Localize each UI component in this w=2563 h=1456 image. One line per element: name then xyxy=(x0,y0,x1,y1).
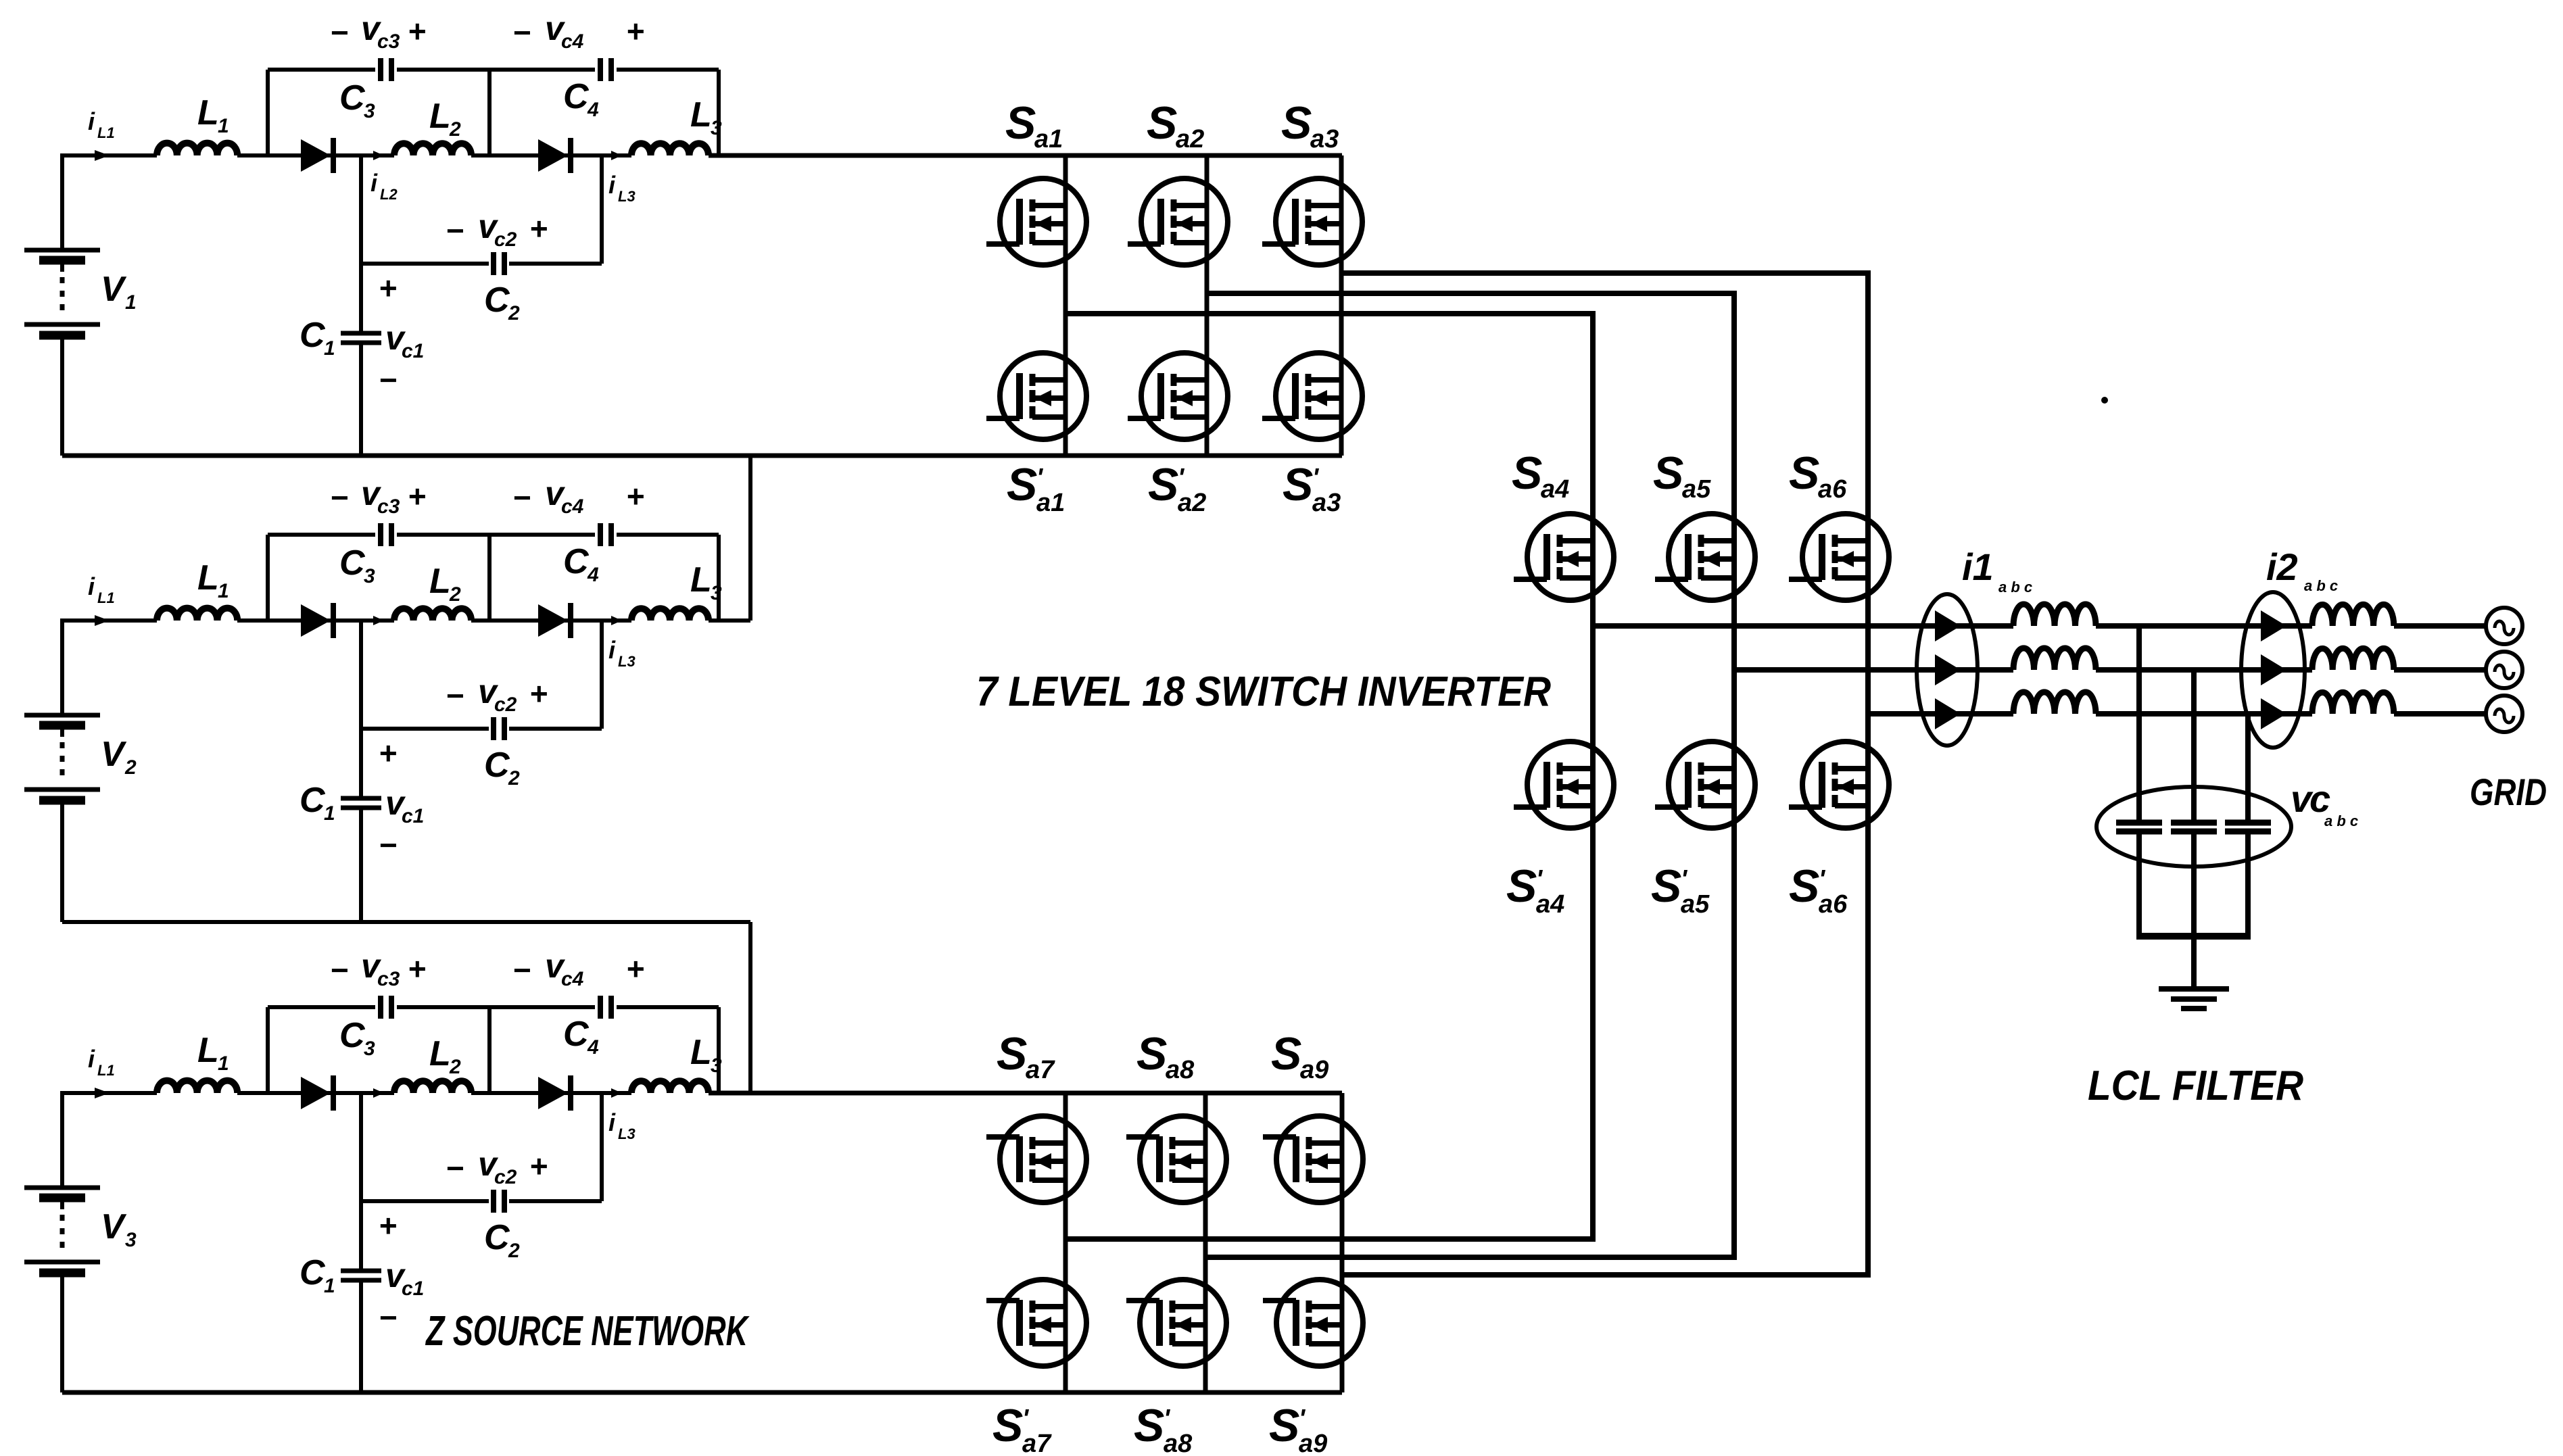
svg-text:+: + xyxy=(379,1208,397,1243)
svg-text:+: + xyxy=(408,951,426,986)
label Sa7 xyxy=(997,1028,1055,1084)
MOSFET S'a3 xyxy=(1262,353,1362,439)
label C2 network 2 xyxy=(484,746,520,790)
svg-text:L3: L3 xyxy=(618,653,636,670)
svg-text:C: C xyxy=(300,316,326,355)
stray dot xyxy=(2101,397,2108,404)
top bus wire network1 to inverter bridge1 xyxy=(709,153,1342,158)
bottom bus wire network1 / bridge1 xyxy=(62,454,1342,458)
polarity - v_c2 + network 3 xyxy=(446,1145,548,1188)
svg-text:−: − xyxy=(379,362,397,397)
filter capacitor Ca xyxy=(2116,823,2162,831)
label i_L1 network 1 xyxy=(88,107,115,141)
C1 branch vertical wire network 1 xyxy=(359,264,363,456)
label v_c1 network 2 xyxy=(385,784,424,827)
current sensor oval i1 xyxy=(1917,594,1978,746)
raised wire middle vertical network 1 xyxy=(487,70,492,155)
label C1 network 1 xyxy=(300,316,335,360)
svg-text:a3: a3 xyxy=(1312,489,1341,517)
phase line B wire to grid source xyxy=(2394,667,2487,673)
svg-text:7 LEVEL 18 SWITCH INVERTER: 7 LEVEL 18 SWITCH INVERTER xyxy=(976,669,1551,715)
svg-text:L: L xyxy=(690,1033,712,1072)
raised wire middle vertical network 3 xyxy=(487,1007,492,1093)
battery V2 of Z-source network 2 xyxy=(24,621,100,922)
svg-text:a b c: a b c xyxy=(2324,812,2358,829)
MOSFET S'a2 xyxy=(1128,353,1228,439)
svg-text:1: 1 xyxy=(125,291,137,314)
junction vertical below diode D1 network 1 xyxy=(359,155,363,264)
label C4 network 1 xyxy=(563,77,599,121)
top wire extension network 2 xyxy=(709,618,750,623)
phase line B inverter-side inductor xyxy=(2013,648,2096,670)
label Sa3 xyxy=(1281,97,1339,153)
MOSFET S'a1 xyxy=(986,353,1086,439)
S'a6 column wire to bridge3 leg3 output xyxy=(1342,714,1868,1275)
inductor L1 network 3 xyxy=(157,1081,237,1093)
svg-text:i: i xyxy=(608,1109,616,1136)
raised wire left vertical network 1 xyxy=(266,70,270,155)
label i_L3 network 3 xyxy=(608,1109,636,1142)
svg-text:L1: L1 xyxy=(97,1062,115,1079)
C2 branch horizontal wire network 2 xyxy=(361,727,602,731)
svg-text:a1: a1 xyxy=(1036,489,1065,517)
label i_L1 network 2 xyxy=(88,573,115,606)
label V2 xyxy=(101,735,137,779)
label C4 network 3 xyxy=(563,1015,599,1059)
svg-text:L: L xyxy=(429,1034,451,1073)
bridge1 leg1 output wire to Sa4 column xyxy=(1065,314,1593,626)
svg-text:c3: c3 xyxy=(377,495,400,518)
label C3 network 2 xyxy=(339,543,375,587)
current arrow after diode D1 network 2 xyxy=(373,616,384,625)
svg-text:i: i xyxy=(88,107,95,135)
polarity - v_c4 + network 1 xyxy=(512,9,644,53)
raised wire right vertical network 2 xyxy=(717,535,721,621)
label C1 network 2 xyxy=(300,781,335,825)
bridge3 leg 1 vertical wire xyxy=(1063,1093,1068,1392)
wire L1 to L2 (through diode) network 3 xyxy=(237,1091,394,1095)
svg-text:−: − xyxy=(330,15,348,50)
polarity - v_c2 + network 1 xyxy=(446,208,548,251)
raised wire right vertical network 1 xyxy=(717,70,721,155)
svg-text:+: + xyxy=(529,1148,548,1184)
svg-text:−: − xyxy=(512,15,531,50)
label S'a2 xyxy=(1148,459,1206,517)
label i_L2 network 1 xyxy=(370,169,398,203)
bottom wire network 2 xyxy=(62,920,750,924)
phase line C wire inverter to L1c coil xyxy=(1868,711,2013,717)
wire L2 to L3 (through diode) network 2 xyxy=(471,618,631,623)
polarity - v_c3 + network 2 xyxy=(330,475,426,518)
wire L1 to L2 (through diode) network 1 xyxy=(237,153,394,157)
bridge1 leg2 output wire to Sa5 column xyxy=(1207,293,1734,670)
junction vertical below diode D1 network 2 xyxy=(359,621,363,729)
svg-text:a7: a7 xyxy=(1026,1056,1055,1084)
label v_c1 network 3 xyxy=(385,1257,424,1300)
MOSFET S'a7 xyxy=(986,1280,1086,1366)
label i1 xyxy=(1962,545,2032,596)
svg-text:c4: c4 xyxy=(561,30,584,53)
label C1 network 3 xyxy=(300,1253,335,1297)
polarity - v_c3 + network 3 xyxy=(330,947,426,990)
raised wire middle vertical network 2 xyxy=(487,535,492,621)
svg-text:2: 2 xyxy=(124,756,137,779)
label L1 network 2 xyxy=(197,558,229,602)
svg-text:L: L xyxy=(429,97,451,136)
svg-text:S: S xyxy=(1269,1400,1299,1451)
label Sa5 xyxy=(1653,447,1711,504)
svg-text:i: i xyxy=(608,171,616,199)
raised wire segments network 2 xyxy=(268,533,719,537)
MOSFET Sa8 xyxy=(1126,1116,1226,1203)
capacitor C1 network 3 xyxy=(341,1271,381,1280)
inductor L3 network 3 xyxy=(631,1081,709,1093)
wire L1 to L2 (through diode) network 2 xyxy=(237,618,394,623)
svg-text:a5: a5 xyxy=(1681,890,1710,919)
label Sa9 xyxy=(1271,1028,1328,1084)
current arrow after diode D1 network 3 xyxy=(373,1088,384,1098)
svg-text:2: 2 xyxy=(508,767,520,790)
capacitor bottom wire phase a xyxy=(2136,834,2142,936)
svg-text:−: − xyxy=(512,952,531,988)
svg-text:S: S xyxy=(1653,447,1683,499)
svg-text:S: S xyxy=(1147,97,1177,149)
capacitor C4 network 2 xyxy=(600,523,611,546)
label L1 network 1 xyxy=(197,93,229,137)
svg-text:V: V xyxy=(101,1207,127,1246)
bottom bus wire network3 / bridge3 xyxy=(62,1390,1342,1395)
svg-text:c2: c2 xyxy=(494,1166,517,1188)
current arrow i_L1 network 1 xyxy=(95,150,110,161)
inductor L2 network 3 xyxy=(394,1081,471,1093)
caption LCL FILTER xyxy=(2088,1063,2303,1109)
svg-text:C: C xyxy=(484,281,510,320)
svg-text:+: + xyxy=(529,211,548,246)
svg-text:S: S xyxy=(1506,860,1537,912)
svg-text:S: S xyxy=(997,1028,1027,1079)
label L1 network 3 xyxy=(197,1031,229,1075)
diode D2 network 3 xyxy=(538,1075,571,1111)
svg-text:L3: L3 xyxy=(618,1125,636,1142)
svg-text:S: S xyxy=(1148,459,1178,510)
MOSFET S'a4 xyxy=(1514,742,1614,828)
svg-text:4: 4 xyxy=(587,1036,599,1059)
capacitor C2 network 2 xyxy=(494,717,504,740)
svg-text:L3: L3 xyxy=(618,188,636,205)
svg-text:S: S xyxy=(1005,97,1036,149)
ground symbol xyxy=(2159,989,2229,1009)
svg-text:2: 2 xyxy=(449,1056,461,1078)
label S'a6 xyxy=(1789,860,1848,919)
capacitor C3 network 2 xyxy=(381,523,391,546)
svg-text:a4: a4 xyxy=(1536,890,1564,919)
svg-text:i1: i1 xyxy=(1962,545,1994,588)
svg-text:L: L xyxy=(690,560,712,600)
C2 branch right vertical network 2 xyxy=(600,621,604,729)
svg-text:c1: c1 xyxy=(402,1278,424,1300)
svg-text:C: C xyxy=(484,1218,510,1257)
svg-text:a8: a8 xyxy=(1164,1430,1193,1456)
svg-text:L: L xyxy=(690,95,712,135)
top wire of network 2 (battery to L1) xyxy=(60,618,157,623)
svg-text:S: S xyxy=(992,1400,1023,1451)
svg-text:2: 2 xyxy=(508,302,520,324)
diode D2 network 1 xyxy=(538,138,571,173)
current sensor oval i2 xyxy=(2241,592,2305,748)
capacitor tap wire phase a xyxy=(2136,626,2142,820)
svg-text:1: 1 xyxy=(218,580,229,602)
svg-text:a6: a6 xyxy=(1818,475,1847,504)
label - below C1 network 3 xyxy=(379,1300,397,1335)
diode D1 network 2 xyxy=(301,603,333,638)
svg-text:L: L xyxy=(429,562,451,601)
capacitor bottom wire phase c xyxy=(2245,834,2251,936)
label S'a3 xyxy=(1283,459,1341,517)
current arrow i_L2 network 1 xyxy=(373,151,384,160)
label Sa6 xyxy=(1789,447,1847,504)
MOSFET Sa3 xyxy=(1262,178,1362,265)
wire L2 to L3 (through diode) network 1 xyxy=(471,153,631,157)
svg-text:V: V xyxy=(101,270,127,309)
svg-text:i: i xyxy=(608,636,616,664)
svg-text:C: C xyxy=(339,78,366,118)
svg-text:c1: c1 xyxy=(402,805,424,827)
svg-text:c2: c2 xyxy=(494,228,517,251)
current arrow i_L1 network 3 xyxy=(95,1088,110,1098)
phase line B wire to grid-side inductor xyxy=(2096,667,2312,673)
svg-text:C: C xyxy=(563,1015,590,1054)
polarity - v_c3 + network 1 xyxy=(330,9,426,53)
phase line A wire inverter to L1a coil xyxy=(1593,623,2013,629)
svg-text:a b c: a b c xyxy=(2304,577,2338,594)
capacitor C2 network 3 xyxy=(494,1190,504,1213)
svg-text:a9: a9 xyxy=(1299,1430,1327,1456)
S'a5 column wire to bridge3 leg2 output xyxy=(1205,670,1734,1257)
label C2 network 3 xyxy=(484,1218,520,1262)
inductor L1 network 1 xyxy=(157,143,237,155)
svg-text:+: + xyxy=(626,479,644,514)
svg-text:c3: c3 xyxy=(377,30,400,53)
phase line C wire to grid source xyxy=(2394,711,2487,717)
i1 arrow phase a xyxy=(1935,610,1961,641)
label - below C1 network 2 xyxy=(379,827,397,863)
svg-text:1: 1 xyxy=(218,115,229,137)
svg-text:S: S xyxy=(1512,447,1542,499)
MOSFET Sa9 xyxy=(1263,1116,1363,1203)
svg-text:1: 1 xyxy=(218,1052,229,1075)
svg-text:a6: a6 xyxy=(1819,890,1848,919)
svg-text:a5: a5 xyxy=(1682,475,1711,504)
capacitor C4 network 3 xyxy=(600,996,611,1019)
label Sa8 xyxy=(1136,1028,1195,1084)
svg-text:−: − xyxy=(379,827,397,863)
svg-text:i: i xyxy=(88,1045,95,1073)
svg-text:−: − xyxy=(512,480,531,515)
MOSFET Sa5 xyxy=(1655,514,1755,600)
MOSFET S'a8 xyxy=(1126,1280,1226,1366)
C1 branch vertical wire network 2 xyxy=(359,729,363,922)
svg-text:a3: a3 xyxy=(1310,125,1339,153)
C2 branch right vertical network 3 xyxy=(600,1093,604,1201)
i1 arrow phase c xyxy=(1935,698,1961,729)
label S'a4 xyxy=(1506,860,1564,919)
svg-text:c1: c1 xyxy=(402,340,424,362)
battery V3 of Z-source network 3 xyxy=(24,1093,100,1392)
label V1 xyxy=(101,270,137,314)
capacitor C3 network 3 xyxy=(381,996,391,1019)
label C4 network 2 xyxy=(563,542,599,586)
svg-text:2: 2 xyxy=(449,118,461,141)
svg-text:1: 1 xyxy=(324,1275,335,1297)
filter capacitor Cb xyxy=(2171,823,2217,831)
svg-text:L2: L2 xyxy=(380,186,398,203)
svg-text:L1: L1 xyxy=(97,589,115,606)
svg-text:4: 4 xyxy=(587,99,599,121)
wire connector network2 bottom to network3 top xyxy=(748,922,752,1093)
raised wire right vertical network 3 xyxy=(717,1007,721,1093)
svg-text:+: + xyxy=(626,951,644,986)
phase line C grid-side inductor xyxy=(2312,692,2394,714)
phase line A wire to grid-side inductor xyxy=(2096,623,2312,629)
vc sensing oval xyxy=(2097,787,2291,867)
label GRID xyxy=(2470,771,2547,813)
svg-text:−: − xyxy=(330,480,348,515)
label S'a1 xyxy=(1007,459,1065,517)
svg-text:a1: a1 xyxy=(1034,125,1063,153)
phase line A wire to grid source xyxy=(2394,623,2487,629)
svg-text:3: 3 xyxy=(364,100,375,122)
bridge3 leg 3 vertical wire xyxy=(1340,1093,1345,1392)
label Sa2 xyxy=(1147,97,1204,153)
svg-text:c4: c4 xyxy=(561,495,584,518)
raised wire left vertical network 2 xyxy=(266,535,270,621)
C1 branch vertical wire network 3 xyxy=(359,1201,363,1392)
svg-text:3: 3 xyxy=(364,565,375,587)
i1 arrow phase b xyxy=(1935,654,1961,685)
svg-text:S: S xyxy=(1271,1028,1301,1079)
phase line B grid-side inductor xyxy=(2312,648,2394,670)
capacitor C1 network 1 xyxy=(341,333,381,343)
svg-text:S: S xyxy=(1789,860,1819,912)
polarity - v_c4 + network 2 xyxy=(512,475,644,518)
label L3 network 1 xyxy=(690,95,722,139)
svg-text:C: C xyxy=(484,746,510,785)
label i_L3 network 1 xyxy=(608,171,636,205)
i2 arrow phase c xyxy=(2261,698,2286,729)
MOSFET S'a5 xyxy=(1655,742,1755,828)
inductor L3 network 1 xyxy=(631,143,709,155)
phase line C wire to grid-side inductor xyxy=(2096,711,2312,717)
svg-text:1: 1 xyxy=(324,802,335,825)
MOSFET Sa4 xyxy=(1514,514,1614,600)
MOSFET Sa1 xyxy=(986,178,1086,265)
label + above C1 network 3 xyxy=(379,1208,397,1243)
svg-text:−: − xyxy=(330,952,348,988)
current arrow i_L3 network 2 xyxy=(611,616,622,625)
diode D2 network 2 xyxy=(538,603,571,638)
inductor L2 network 1 xyxy=(394,143,471,155)
wire L2 to L3 (through diode) network 3 xyxy=(471,1091,631,1095)
junction vertical below diode D1 network 3 xyxy=(359,1093,363,1201)
MOSFET Sa6 xyxy=(1789,514,1889,600)
label Sa4 xyxy=(1512,447,1569,504)
diode D1 network 1 xyxy=(301,138,333,173)
label i_L1 network 3 xyxy=(88,1045,115,1079)
label + above C1 network 1 xyxy=(379,270,397,306)
svg-text:S: S xyxy=(1283,459,1313,510)
svg-text:−: − xyxy=(446,1150,464,1186)
svg-text:S: S xyxy=(1281,97,1312,149)
raised wire segments network 3 xyxy=(268,1005,719,1009)
polarity - v_c2 + network 2 xyxy=(446,673,548,716)
C2 branch horizontal wire network 3 xyxy=(361,1199,602,1203)
svg-text:+: + xyxy=(408,479,426,514)
i2 arrow phase b xyxy=(2261,654,2286,685)
AC grid source phase c xyxy=(2486,696,2522,732)
AC grid source phase b xyxy=(2486,652,2522,688)
label + above C1 network 2 xyxy=(379,735,397,771)
label v_c1 network 1 xyxy=(385,319,424,362)
svg-text:+: + xyxy=(529,676,548,711)
svg-text:V: V xyxy=(101,735,127,774)
bridge1 leg 3 vertical wire xyxy=(1339,155,1344,456)
top wire of network 3 (battery to L1) xyxy=(60,1091,157,1095)
phase line C inverter-side inductor xyxy=(2013,692,2096,714)
svg-text:c2: c2 xyxy=(494,694,517,716)
svg-text:GRID: GRID xyxy=(2470,771,2547,813)
MOSFET Sa7 xyxy=(986,1116,1086,1203)
bridge1 leg 1 vertical wire xyxy=(1063,155,1068,456)
wire connector network1 bottom to network2 top xyxy=(748,456,752,621)
svg-text:C: C xyxy=(339,1016,366,1055)
label C3 network 3 xyxy=(339,1016,375,1060)
bridge1 leg3 output wire to Sa6 column xyxy=(1341,273,1868,714)
phase line B wire inverter to L1b coil xyxy=(1734,667,2013,673)
svg-text:+: + xyxy=(408,14,426,49)
capacitor C1 network 2 xyxy=(341,798,381,808)
inductor L2 network 2 xyxy=(394,608,471,621)
capacitor C2 network 1 xyxy=(494,252,504,275)
label - below C1 network 1 xyxy=(379,362,397,397)
label L2 network 3 xyxy=(429,1034,461,1078)
svg-text:a b c: a b c xyxy=(1998,579,2032,596)
svg-text:C: C xyxy=(300,1253,326,1292)
svg-text:a8: a8 xyxy=(1166,1056,1195,1084)
svg-text:a7: a7 xyxy=(1022,1430,1052,1456)
C2 branch right vertical network 1 xyxy=(600,155,604,264)
label L3 network 3 xyxy=(690,1033,722,1077)
MOSFET Sa2 xyxy=(1128,178,1228,265)
MOSFET S'a6 xyxy=(1789,742,1889,828)
svg-text:2: 2 xyxy=(449,583,461,606)
svg-text:LCL FILTER: LCL FILTER xyxy=(2088,1063,2303,1109)
capacitor C3 network 1 xyxy=(381,58,391,81)
svg-text:C: C xyxy=(339,543,366,583)
svg-text:S: S xyxy=(1136,1028,1167,1079)
diode D1 network 3 xyxy=(301,1075,333,1111)
svg-text:L: L xyxy=(197,93,219,132)
caption Z SOURCE NETWORK xyxy=(425,1308,750,1355)
label S'a7 xyxy=(992,1400,1052,1456)
svg-text:3: 3 xyxy=(125,1229,137,1251)
svg-text:a2: a2 xyxy=(1176,125,1204,153)
svg-text:C: C xyxy=(300,781,326,820)
svg-text:+: + xyxy=(379,735,397,771)
capacitor bottom wire phase b xyxy=(2191,834,2197,936)
svg-text:S: S xyxy=(1007,459,1037,510)
svg-text:a9: a9 xyxy=(1300,1056,1328,1084)
svg-text:1: 1 xyxy=(324,337,335,360)
